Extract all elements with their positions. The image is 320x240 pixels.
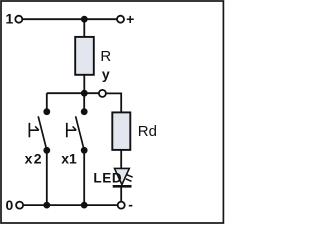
junction top of R: [81, 16, 88, 23]
switch x1 blade: [76, 116, 85, 150]
LED anode triangle: [115, 168, 130, 184]
svg-text:x1: x1: [61, 151, 77, 167]
switch x2 bottom stub: [46, 150, 48, 205]
wire LED bottom: [120, 188, 122, 202]
junction bottom of x2: [43, 202, 50, 209]
wire bottom rail: [24, 204, 118, 206]
svg-text:y: y: [102, 66, 110, 82]
switch x2 top contact dot: [43, 108, 50, 115]
switch x2 actuator link: [29, 129, 38, 131]
LED light marks: [127, 175, 133, 178]
switch x2 bottom contact dot: [43, 147, 50, 154]
svg-text:0: 0: [6, 197, 14, 213]
resistor Rd: [112, 112, 130, 149]
terminal y: [99, 90, 106, 97]
wire R top: [83, 19, 85, 37]
switch x2 blade: [38, 116, 47, 150]
svg-text:LED: LED: [93, 171, 122, 186]
wire top rail: [22, 18, 116, 20]
border frame (decorative): [1, 1, 223, 223]
switch x1 actuator bar: [66, 123, 68, 138]
switch x1 actuator link: [67, 129, 76, 131]
wire Rd bottom: [120, 150, 122, 169]
LED cathode bar: [113, 185, 132, 188]
switch x1 bottom contact dot: [81, 147, 88, 154]
svg-text:+: +: [126, 11, 134, 27]
switch x1 actuator arrow: [73, 126, 77, 130]
terminal +: [117, 16, 124, 23]
svg-text:R: R: [100, 48, 111, 65]
switch x2 actuator arrow: [35, 126, 39, 130]
wire node y horizontal: [47, 92, 99, 94]
svg-text:Rd: Rd: [138, 123, 157, 140]
svg-text:1: 1: [6, 11, 14, 27]
wire y to Rd: [106, 93, 121, 112]
svg-text:-: -: [128, 197, 133, 213]
switch x2 actuator bar: [28, 123, 30, 138]
resistor R: [75, 37, 94, 75]
switch x1 bottom stub: [83, 150, 85, 205]
svg-text:x2: x2: [25, 151, 43, 167]
terminal 1: [15, 16, 22, 23]
wire R bottom: [83, 75, 85, 93]
junction node y: [81, 90, 88, 97]
terminal -: [118, 202, 125, 209]
switch x2 top stub: [46, 93, 48, 111]
terminal 0: [16, 202, 23, 209]
junction bottom of x1: [81, 202, 88, 209]
switch x1 top contact dot: [81, 108, 88, 115]
switch x1 top stub: [83, 93, 85, 111]
